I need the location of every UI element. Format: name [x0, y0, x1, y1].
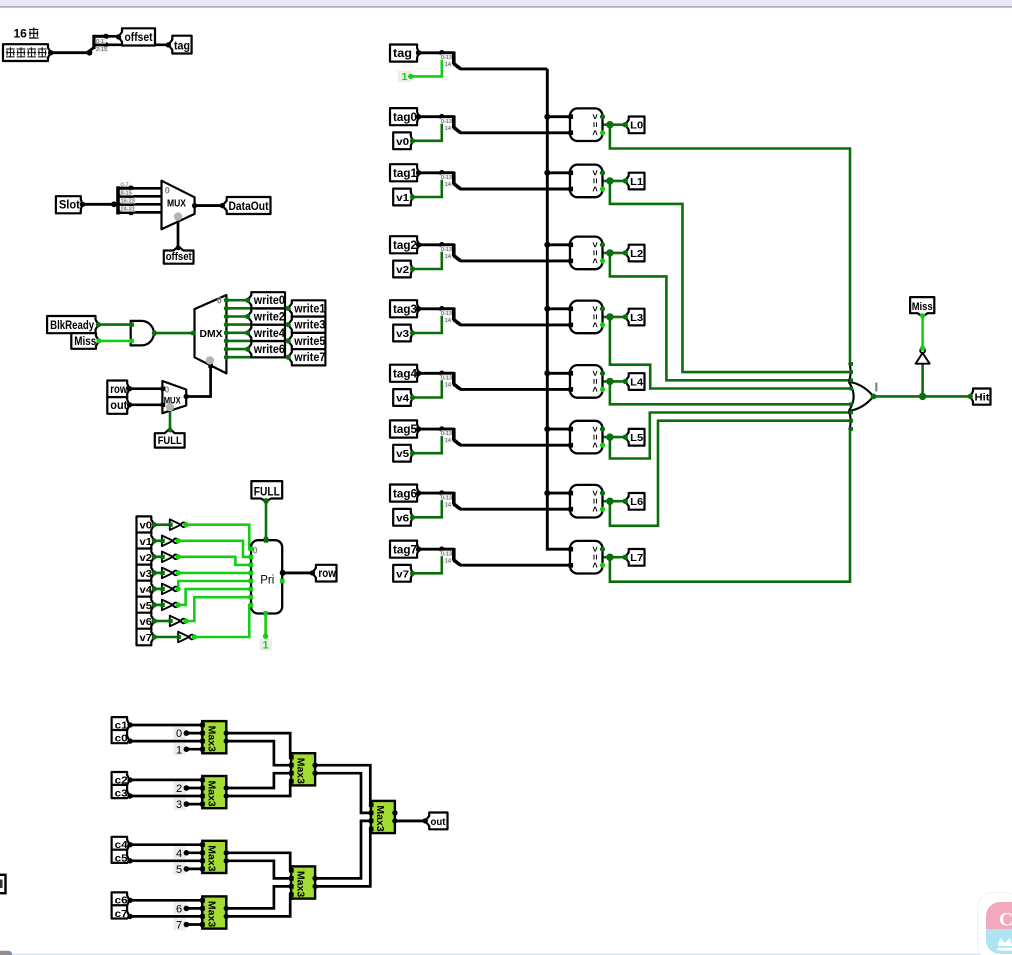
svg-text:Max3: Max3 — [206, 901, 218, 927]
svg-text:tag1: tag1 — [393, 168, 418, 180]
svg-text:14: 14 — [445, 558, 451, 564]
svg-text:write0: write0 — [253, 295, 285, 307]
svg-text:offset: offset — [166, 251, 192, 263]
svg-text:>: > — [589, 371, 600, 377]
svg-text:write1: write1 — [293, 303, 325, 315]
svg-text:0-13: 0-13 — [441, 247, 452, 253]
svg-text:tag: tag — [393, 48, 412, 60]
svg-text:14: 14 — [445, 182, 451, 188]
svg-text:0: 0 — [217, 296, 222, 306]
svg-text:L3: L3 — [630, 312, 643, 324]
svg-text:2-15: 2-15 — [96, 47, 107, 53]
svg-text:0-13: 0-13 — [441, 376, 452, 382]
svg-text:16: 16 — [14, 27, 28, 41]
svg-text:c0: c0 — [115, 733, 128, 745]
svg-text:=: = — [589, 178, 600, 184]
svg-text:L4: L4 — [630, 376, 643, 388]
svg-text:DataOut: DataOut — [229, 201, 269, 213]
svg-text:<: < — [589, 387, 600, 393]
svg-text:row: row — [318, 568, 336, 580]
svg-text:v3: v3 — [396, 328, 409, 340]
svg-text:0: 0 — [176, 728, 182, 740]
svg-text:=: = — [589, 498, 600, 504]
svg-text:out: out — [110, 400, 127, 412]
svg-text:c3: c3 — [115, 788, 128, 800]
svg-text:v4: v4 — [140, 584, 153, 596]
svg-text:14: 14 — [445, 502, 451, 508]
svg-text:<: < — [589, 562, 600, 568]
svg-text:c7: c7 — [115, 908, 128, 920]
svg-text:v0: v0 — [140, 520, 153, 532]
svg-text:0-13: 0-13 — [441, 55, 452, 61]
svg-text:tag5: tag5 — [393, 424, 418, 436]
svg-text:=: = — [589, 122, 600, 128]
svg-text:5: 5 — [176, 864, 182, 876]
svg-text:8-15: 8-15 — [121, 191, 132, 197]
svg-text:1: 1 — [176, 744, 182, 756]
svg-text:=: = — [589, 379, 600, 385]
svg-text:=: = — [589, 554, 600, 560]
svg-text:tag: tag — [174, 40, 190, 52]
svg-text:6: 6 — [176, 904, 182, 916]
svg-text:0: 0 — [165, 186, 170, 196]
svg-text:14: 14 — [445, 254, 451, 260]
svg-text:=: = — [589, 250, 600, 256]
svg-text:Pri: Pri — [260, 575, 274, 587]
svg-text:>: > — [589, 490, 600, 496]
svg-text:L7: L7 — [630, 552, 643, 564]
svg-text:0-1: 0-1 — [96, 39, 104, 45]
svg-text:c6: c6 — [115, 895, 128, 907]
svg-text:7: 7 — [176, 920, 182, 932]
svg-text:4: 4 — [176, 848, 182, 860]
svg-text:=: = — [589, 434, 600, 440]
svg-text:C: C — [999, 910, 1012, 931]
svg-text:v6: v6 — [396, 512, 409, 524]
svg-text:v7: v7 — [396, 568, 409, 580]
svg-text:c4: c4 — [115, 839, 128, 851]
svg-text:v1: v1 — [140, 536, 153, 548]
svg-text:0-13: 0-13 — [441, 431, 452, 437]
svg-text:v4: v4 — [396, 393, 409, 405]
svg-text:Max3: Max3 — [374, 805, 386, 831]
svg-text:v2: v2 — [140, 552, 153, 564]
svg-text:<: < — [589, 130, 600, 136]
svg-text:Max3: Max3 — [206, 781, 218, 807]
svg-text:L2: L2 — [630, 248, 643, 260]
svg-text:tag7: tag7 — [393, 544, 417, 556]
svg-text:tag3: tag3 — [393, 304, 417, 316]
svg-text:out: out — [431, 816, 446, 828]
svg-text:v3: v3 — [140, 568, 153, 580]
svg-text:14: 14 — [445, 126, 451, 132]
svg-text:=: = — [589, 314, 600, 320]
svg-text:Max3: Max3 — [206, 845, 218, 871]
svg-text:FULL: FULL — [158, 435, 182, 447]
svg-text:2: 2 — [176, 783, 182, 795]
svg-text:write7: write7 — [293, 352, 325, 364]
svg-text:16-23: 16-23 — [121, 199, 135, 205]
svg-text:v5: v5 — [396, 448, 409, 460]
svg-text:1: 1 — [263, 639, 269, 651]
svg-text:DMX: DMX — [200, 328, 223, 340]
svg-text:Slot: Slot — [59, 200, 80, 212]
svg-text:offset: offset — [125, 32, 153, 44]
svg-text:Max3: Max3 — [294, 758, 306, 784]
svg-text:c5: c5 — [115, 852, 128, 864]
svg-text:<: < — [589, 258, 600, 264]
svg-text:>: > — [589, 426, 600, 432]
svg-text:write4: write4 — [253, 328, 285, 340]
svg-text:>: > — [589, 170, 600, 176]
svg-text:Hit: Hit — [975, 391, 991, 403]
svg-text:v5: v5 — [140, 600, 153, 612]
svg-text:0-13: 0-13 — [441, 119, 452, 125]
svg-text:Max3: Max3 — [294, 871, 306, 897]
svg-text:MUX: MUX — [167, 199, 186, 210]
svg-text:24-31: 24-31 — [121, 207, 135, 213]
svg-text:<: < — [589, 506, 600, 512]
svg-text:Max3: Max3 — [206, 726, 218, 752]
svg-text:0-7: 0-7 — [121, 182, 129, 188]
svg-text:write5: write5 — [293, 336, 325, 348]
svg-text:0: 0 — [253, 546, 258, 556]
svg-text:write2: write2 — [253, 312, 285, 324]
svg-text:14: 14 — [445, 438, 451, 444]
svg-text:<: < — [589, 186, 600, 192]
svg-text:14: 14 — [445, 62, 451, 68]
svg-text:14: 14 — [445, 318, 451, 324]
svg-text:v7: v7 — [140, 632, 153, 644]
svg-text:L6: L6 — [630, 496, 643, 508]
svg-text:0-13: 0-13 — [441, 175, 452, 181]
svg-text:0-13: 0-13 — [441, 311, 452, 317]
svg-text:>: > — [589, 114, 600, 120]
svg-text:14: 14 — [445, 383, 451, 389]
svg-text:0-13: 0-13 — [441, 551, 452, 557]
svg-text:write6: write6 — [253, 344, 285, 356]
svg-text:L5: L5 — [630, 432, 643, 444]
svg-text:0: 0 — [165, 384, 170, 394]
svg-text:tag4: tag4 — [393, 369, 418, 381]
svg-text:c2: c2 — [115, 774, 128, 786]
svg-text:row: row — [110, 384, 127, 396]
svg-text:v0: v0 — [396, 136, 409, 148]
svg-text:0-13: 0-13 — [441, 495, 452, 501]
svg-text:L0: L0 — [630, 120, 643, 132]
svg-text:L1: L1 — [630, 176, 643, 188]
svg-text:write3: write3 — [293, 320, 325, 332]
svg-text:FULL: FULL — [254, 487, 280, 499]
svg-text:v6: v6 — [140, 616, 153, 628]
svg-text:BlkReady: BlkReady — [50, 320, 94, 332]
svg-text:tag2: tag2 — [393, 240, 417, 252]
svg-text:<: < — [589, 322, 600, 328]
svg-text:tag0: tag0 — [393, 112, 417, 124]
svg-text:Miss: Miss — [74, 336, 96, 348]
svg-text:v1: v1 — [396, 192, 409, 204]
svg-text:v2: v2 — [396, 264, 409, 276]
svg-text:<: < — [589, 442, 600, 448]
svg-text:>: > — [589, 242, 600, 248]
svg-text:>: > — [589, 306, 600, 312]
svg-text:1: 1 — [402, 71, 408, 83]
svg-text:c1: c1 — [115, 719, 128, 731]
svg-text:>: > — [589, 546, 600, 552]
svg-text:tag6: tag6 — [393, 488, 417, 500]
svg-text:3: 3 — [176, 799, 182, 811]
svg-text:Miss: Miss — [912, 301, 933, 313]
